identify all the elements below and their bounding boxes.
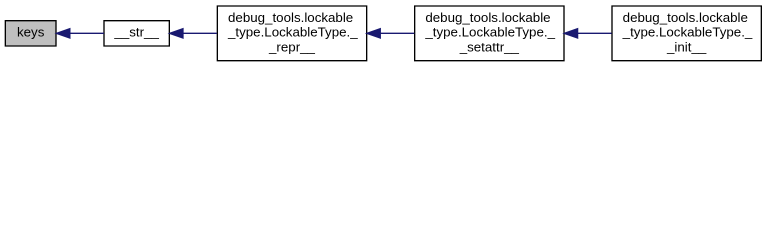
svg-text:_type.LockableType._: _type.LockableType._ [227,25,358,40]
svg-text:_type.LockableType._: _type.LockableType._ [622,25,753,40]
svg-text:__str__: __str__ [113,25,159,40]
svg-text:_repr__: _repr__ [268,39,316,54]
svg-text:_setattr__: _setattr__ [459,39,520,54]
svg-text:_init__: _init__ [666,39,707,54]
svg-text:debug_tools.lockable: debug_tools.lockable [425,10,550,25]
svg-text:debug_tools.lockable: debug_tools.lockable [623,10,748,25]
svg-text:_type.LockableType._: _type.LockableType._ [424,25,555,40]
svg-text:keys: keys [17,25,45,40]
svg-text:debug_tools.lockable: debug_tools.lockable [228,10,353,25]
